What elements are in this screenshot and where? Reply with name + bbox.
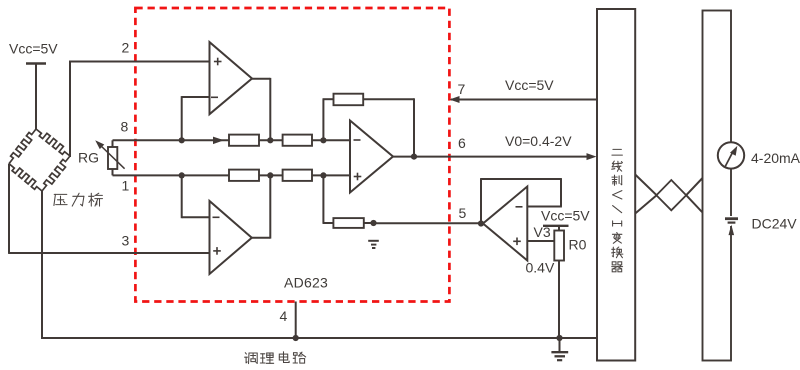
- wire plus-c down to R6: [323, 175, 334, 223]
- resistor R6: [333, 218, 363, 228]
- Vcc power-rail bar (bridge): [26, 62, 46, 65]
- svg-text:4: 4: [280, 308, 288, 324]
- wire U4 + input: [527, 240, 554, 242]
- wire cross stub upper-left: [635, 175, 656, 196]
- resistor R1: [229, 135, 259, 146]
- battery B1: [724, 216, 739, 235]
- wire RG top stub: [112, 140, 114, 147]
- pin label 5: [459, 205, 467, 221]
- label 二线制V/I变换器: [612, 149, 623, 271]
- wire cross stub upper-right: [686, 178, 702, 195]
- pin label 7: [458, 81, 466, 97]
- Vcc=5V supply label (bridge): [9, 41, 58, 57]
- label 压力桥: [54, 193, 103, 206]
- wire pin6 output: [392, 156, 593, 158]
- signal-ground marker: [368, 241, 379, 248]
- wire pin2 horizontal to U1 +: [69, 61, 210, 63]
- svg-text:AD623: AD623: [284, 275, 328, 291]
- label V0=0.4-2V: [505, 133, 572, 149]
- ground bus wire: [41, 337, 597, 339]
- op-amp U3: [210, 201, 252, 274]
- pin label 1: [122, 178, 130, 194]
- wire bridge left vertex down: [8, 164, 10, 254]
- junction dot plus-a: [179, 172, 185, 178]
- wire RG bottom stub: [112, 169, 114, 175]
- svg-text:V3: V3: [534, 224, 551, 240]
- pin label 3: [122, 233, 130, 249]
- op-amp U4 comparator: [483, 187, 527, 261]
- pin6 arrowhead into converter: [587, 153, 597, 160]
- svg-text:5: 5: [459, 205, 467, 221]
- RG wiper arrow: [95, 140, 124, 169]
- label 调理电路: [245, 352, 306, 364]
- wire R6 to node: [364, 222, 374, 224]
- pressure bridge arm bottom-right: [42, 156, 70, 191]
- svg-text:1: 1: [122, 178, 130, 194]
- wire U1 feedback left: [182, 96, 211, 140]
- svg-text:R0: R0: [569, 237, 587, 253]
- resistor R2: [283, 135, 312, 146]
- wire pin3 to U3 +: [9, 252, 210, 254]
- svg-text:2: 2: [122, 40, 130, 56]
- svg-text:V0=0.4-2V: V0=0.4-2V: [505, 133, 572, 149]
- wire pin4 to bus: [295, 302, 297, 339]
- label AD623: [284, 275, 328, 291]
- wire Vcc bar to bridge top: [35, 64, 37, 131]
- junction dot ref node: [370, 220, 376, 226]
- svg-text:0.4V: 0.4V: [526, 260, 555, 276]
- wire pin1 plus line: [113, 174, 351, 176]
- wire R0 to ground bus: [558, 261, 560, 339]
- wire U2 fb resistor right leg: [363, 98, 414, 156]
- resistor R5 feedback: [334, 94, 364, 106]
- svg-text:Vcc=5V: Vcc=5V: [505, 77, 554, 93]
- ground symbol: [551, 338, 568, 360]
- resistor RG body: [108, 147, 117, 169]
- label 4-20mA: [751, 150, 800, 166]
- svg-text:6: 6: [458, 135, 466, 151]
- pressure bridge arm top-left: [9, 129, 36, 164]
- ammeter M1 4-20mA: [718, 142, 744, 168]
- wire U1 output: [251, 78, 270, 140]
- label 0.4V: [526, 260, 555, 276]
- junction dot U2 output: [411, 154, 417, 160]
- wire bar to R0: [558, 226, 560, 231]
- AD623 dashed boundary box: [135, 8, 449, 302]
- V/I converter box: [597, 9, 635, 361]
- junction dot ground node: [556, 335, 562, 341]
- wire pin8 minus line: [113, 139, 351, 141]
- current loop box: [703, 11, 732, 361]
- resistor R3: [229, 170, 259, 181]
- junction dot minus-c: [320, 137, 326, 143]
- signal direction arrow: [213, 137, 224, 145]
- svg-text:Vcc=5V: Vcc=5V: [541, 208, 590, 224]
- junction dot pin4: [293, 335, 299, 341]
- wire pin2 corner vertical: [69, 61, 71, 157]
- svg-text:7: 7: [458, 81, 466, 97]
- wire cross stub lower-right: [686, 195, 702, 212]
- junction dot comparator output: [478, 220, 484, 226]
- pin label 2: [122, 40, 130, 56]
- Vcc power-rail bar (comparator): [543, 225, 569, 227]
- wire U4 feedback loop: [480, 178, 562, 224]
- resistor R0: [554, 231, 564, 261]
- label RG: [78, 150, 99, 166]
- pressure bridge arm top-right: [36, 129, 70, 156]
- label Vcc=5V (pin7): [505, 77, 554, 93]
- crossing diamond: [656, 180, 686, 210]
- svg-text:8: 8: [121, 119, 129, 135]
- label DC24V: [752, 216, 798, 232]
- label Vcc=5V (comparator): [541, 208, 590, 224]
- svg-text:Vcc=5V: Vcc=5V: [9, 41, 58, 57]
- junction dot plus-c: [320, 172, 326, 178]
- svg-text:3: 3: [122, 233, 130, 249]
- wire pin5: [374, 222, 482, 224]
- junction dot plus-b: [267, 172, 273, 178]
- label R0: [569, 237, 587, 253]
- junction dot minus-b: [267, 137, 273, 143]
- op-amp U2: [350, 121, 393, 193]
- resistor R4: [283, 170, 312, 181]
- svg-text:DC24V: DC24V: [752, 216, 798, 232]
- pin label 4: [280, 308, 288, 324]
- wire U2 fb resistor left leg: [323, 99, 334, 140]
- wire bridge bottom to ground bus: [41, 190, 43, 339]
- svg-text:RG: RG: [78, 150, 99, 166]
- wire cross stub lower-left: [635, 195, 656, 213]
- svg-text:4-20mA: 4-20mA: [751, 150, 800, 166]
- label V3: [534, 224, 551, 240]
- junction dot minus-a: [179, 137, 185, 143]
- pin label 8: [121, 119, 129, 135]
- pin label 6: [458, 135, 466, 151]
- wire U3 feedback left: [182, 175, 211, 218]
- wire pin7 Vcc: [450, 96, 598, 103]
- wire U3 output: [251, 175, 270, 238]
- op-amp U1: [210, 42, 253, 114]
- pressure bridge arm bottom-left: [9, 164, 42, 191]
